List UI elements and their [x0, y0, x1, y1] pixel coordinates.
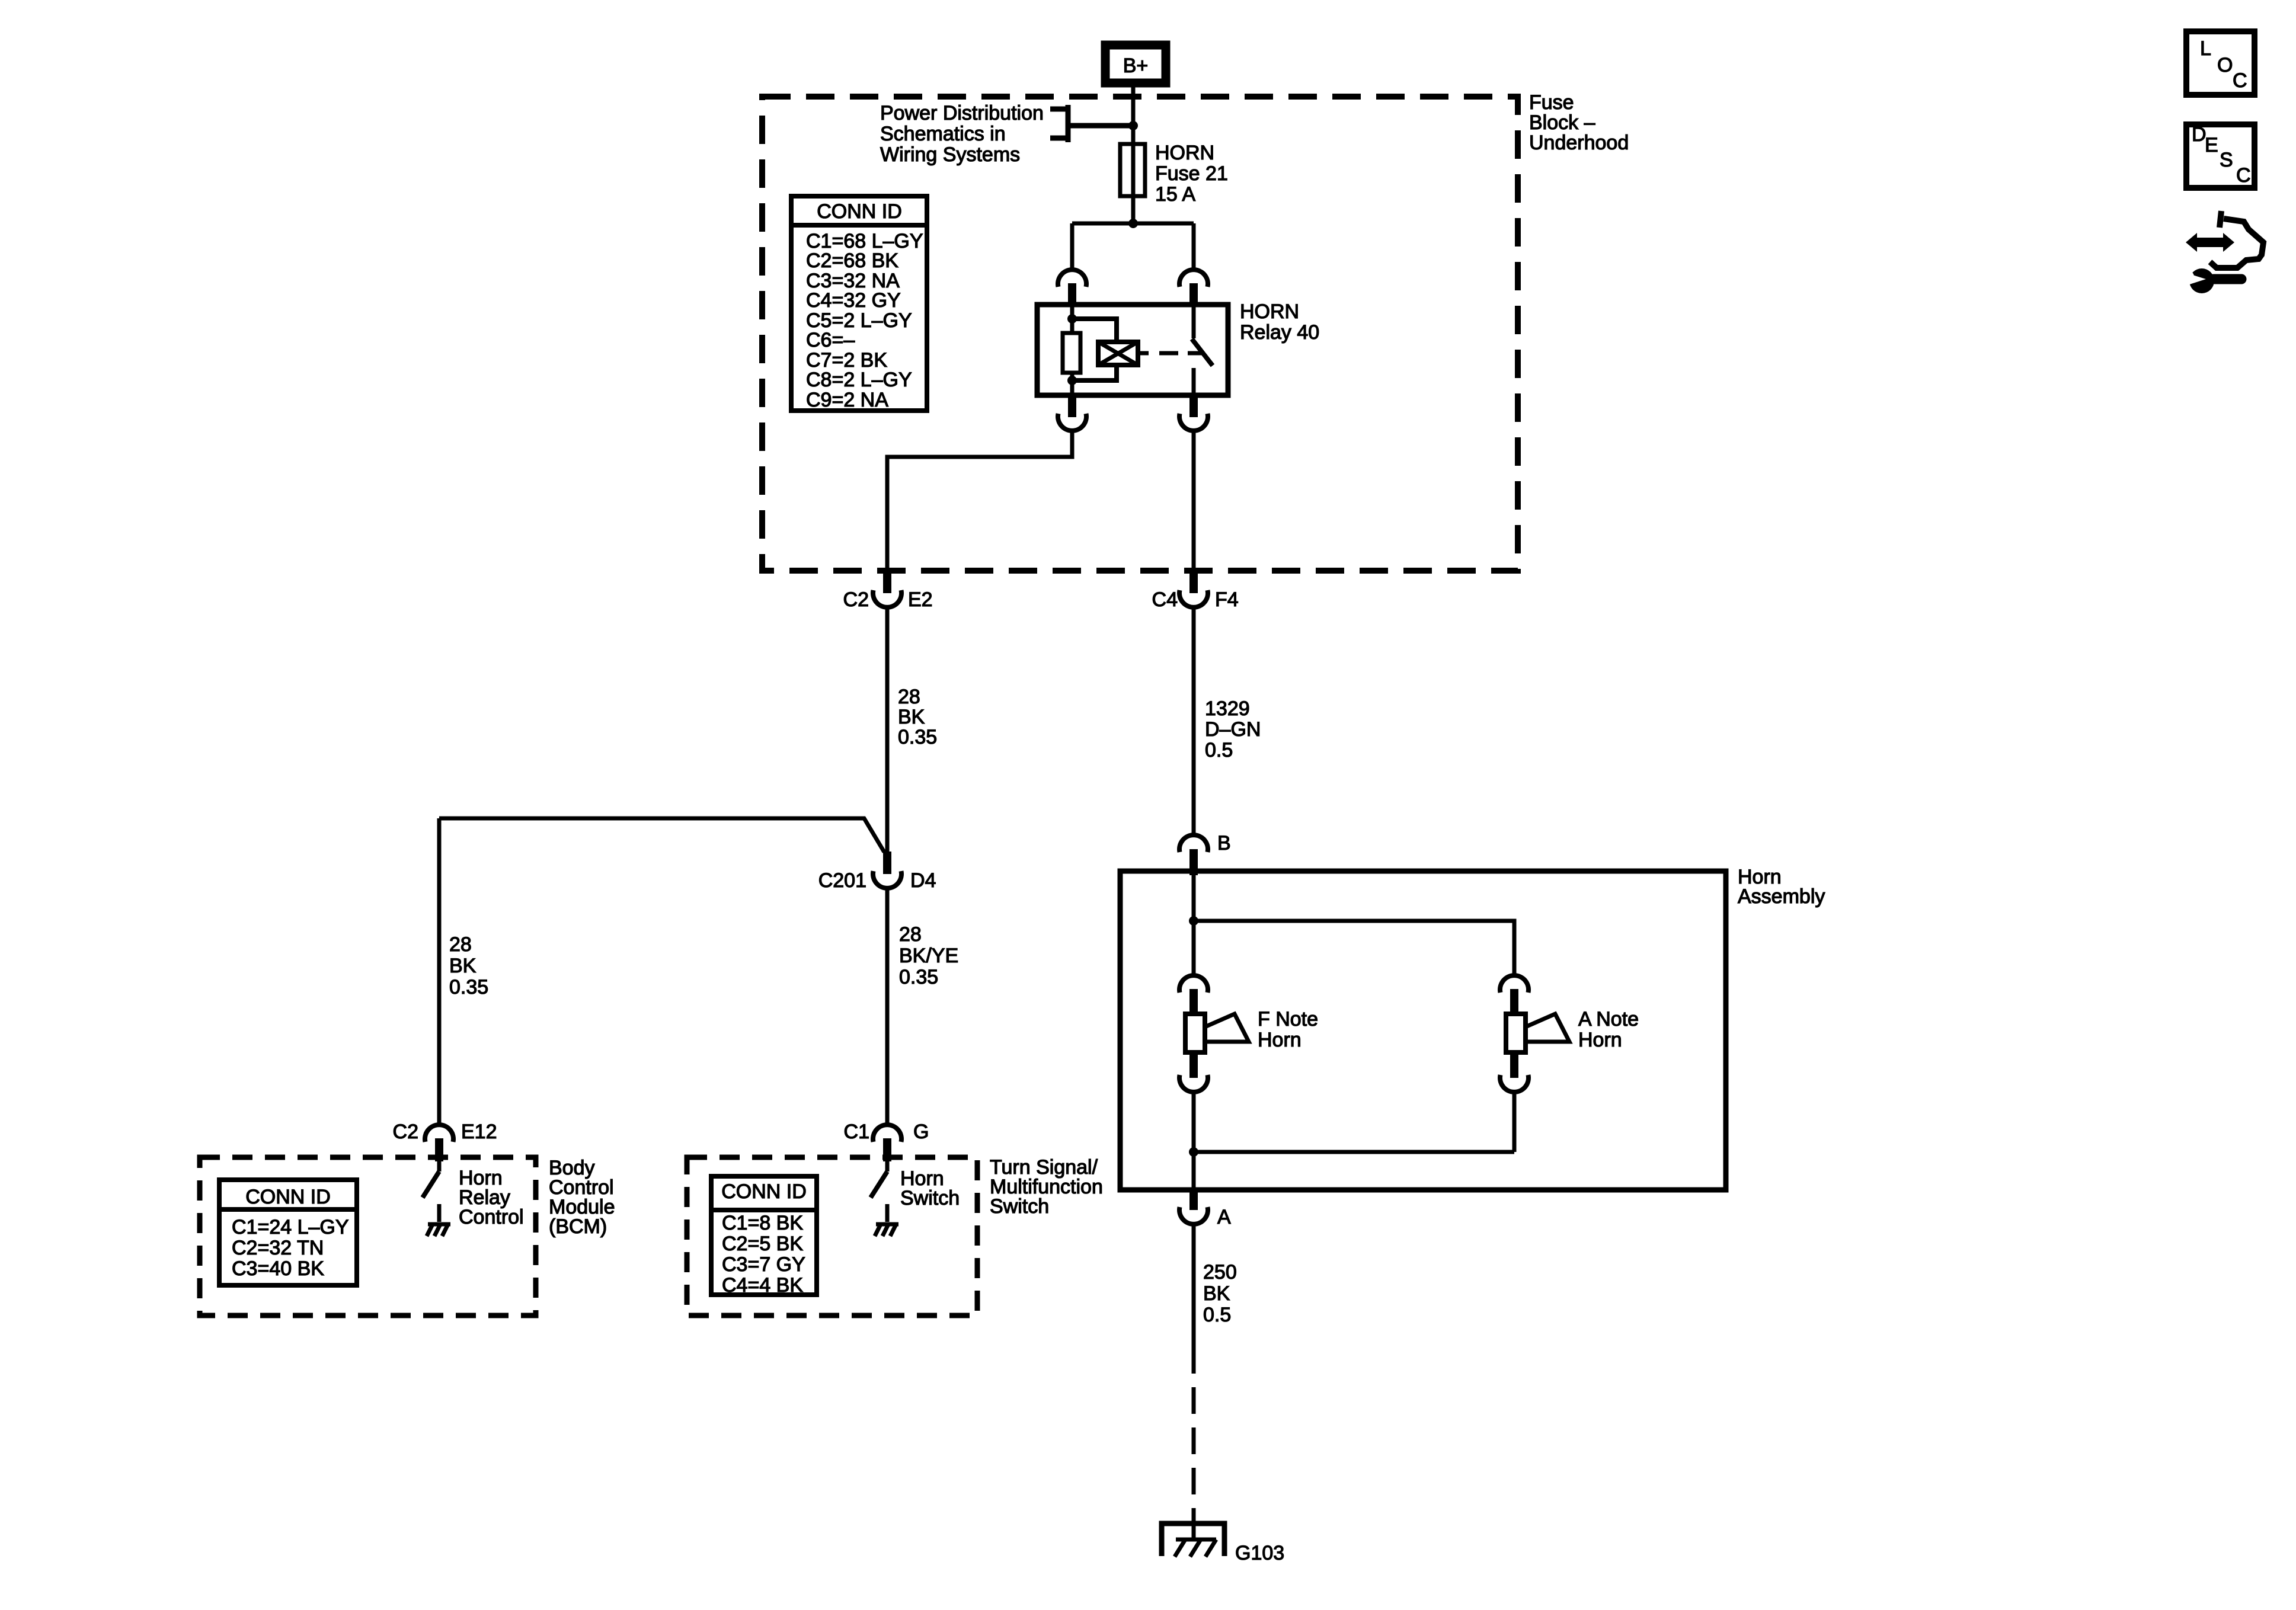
- svg-text:D4: D4: [910, 869, 936, 892]
- svg-text:1329: 1329: [1205, 697, 1250, 720]
- svg-text:F Note: F Note: [1258, 1008, 1318, 1030]
- svg-text:A Note: A Note: [1578, 1008, 1639, 1030]
- svg-text:15 A: 15 A: [1155, 183, 1195, 206]
- svg-text:C1=24 L–GY: C1=24 L–GY: [232, 1216, 349, 1238]
- svg-text:C3=40 BK: C3=40 BK: [232, 1257, 324, 1280]
- svg-text:S: S: [2220, 149, 2233, 171]
- svg-text:0.35: 0.35: [449, 976, 488, 998]
- svg-text:BK: BK: [898, 706, 925, 728]
- svg-text:Power Distribution: Power Distribution: [880, 102, 1044, 124]
- svg-text:C201: C201: [818, 869, 866, 892]
- svg-text:28: 28: [449, 933, 472, 956]
- svg-text:D: D: [2192, 123, 2207, 146]
- svg-text:C1: C1: [844, 1121, 869, 1143]
- svg-text:0.5: 0.5: [1205, 739, 1233, 761]
- svg-text:C2=68 BK: C2=68 BK: [806, 249, 898, 272]
- svg-text:C: C: [2233, 69, 2247, 92]
- svg-text:Relay 40: Relay 40: [1240, 321, 1319, 344]
- svg-text:Underhood: Underhood: [1529, 132, 1629, 154]
- svg-text:C2=32 TN: C2=32 TN: [232, 1237, 324, 1259]
- svg-text:CONN ID: CONN ID: [817, 200, 902, 223]
- svg-text:C2=5 BK: C2=5 BK: [722, 1233, 803, 1255]
- svg-text:Wiring Systems: Wiring Systems: [880, 143, 1020, 166]
- svg-text:C9=2 NA: C9=2 NA: [806, 389, 888, 411]
- svg-text:C8=2 L–GY: C8=2 L–GY: [806, 369, 912, 391]
- svg-text:C4=32 GY: C4=32 GY: [806, 289, 901, 312]
- svg-text:F4: F4: [1215, 588, 1239, 611]
- svg-text:HORN: HORN: [1155, 142, 1214, 164]
- svg-text:E2: E2: [908, 588, 933, 611]
- svg-text:HORN: HORN: [1240, 300, 1299, 323]
- svg-text:L: L: [2200, 37, 2211, 60]
- svg-text:0.35: 0.35: [899, 966, 938, 988]
- svg-text:Block –: Block –: [1529, 111, 1595, 134]
- svg-text:CONN ID: CONN ID: [245, 1186, 331, 1208]
- svg-text:E12: E12: [461, 1121, 497, 1143]
- svg-text:C3=7 GY: C3=7 GY: [722, 1253, 805, 1276]
- svg-text:G103: G103: [1235, 1542, 1284, 1564]
- svg-text:Horn: Horn: [1258, 1029, 1302, 1051]
- svg-text:(BCM): (BCM): [549, 1215, 607, 1238]
- svg-text:Switch: Switch: [900, 1187, 960, 1209]
- svg-text:CONN ID: CONN ID: [721, 1180, 807, 1203]
- svg-text:BK/YE: BK/YE: [899, 945, 958, 967]
- svg-text:E: E: [2205, 134, 2218, 156]
- svg-text:Switch: Switch: [990, 1195, 1049, 1218]
- svg-text:Fuse: Fuse: [1529, 91, 1574, 114]
- svg-text:28: 28: [898, 686, 920, 708]
- svg-text:0.5: 0.5: [1203, 1304, 1231, 1326]
- svg-text:O: O: [2217, 54, 2233, 76]
- svg-text:Horn: Horn: [1578, 1029, 1622, 1051]
- svg-text:B: B: [1217, 832, 1231, 854]
- svg-text:250: 250: [1203, 1261, 1237, 1283]
- svg-text:G: G: [913, 1121, 929, 1143]
- svg-text:Fuse 21: Fuse 21: [1155, 162, 1228, 185]
- svg-text:B+: B+: [1123, 55, 1149, 77]
- svg-text:D–GN: D–GN: [1205, 718, 1261, 741]
- svg-text:C4: C4: [1152, 588, 1178, 611]
- svg-text:C6=–: C6=–: [806, 329, 855, 351]
- svg-text:C2: C2: [843, 588, 869, 611]
- svg-text:BK: BK: [449, 955, 477, 977]
- svg-text:C2: C2: [393, 1121, 418, 1143]
- svg-text:Assembly: Assembly: [1738, 885, 1825, 908]
- svg-text:A: A: [1217, 1206, 1231, 1228]
- svg-text:C1=8 BK: C1=8 BK: [722, 1212, 803, 1234]
- svg-text:C4=4 BK: C4=4 BK: [722, 1274, 803, 1297]
- svg-text:Control: Control: [459, 1206, 524, 1228]
- svg-text:28: 28: [899, 923, 922, 946]
- svg-text:BK: BK: [1203, 1282, 1230, 1305]
- svg-text:C: C: [2236, 164, 2251, 187]
- svg-text:Schematics in: Schematics in: [880, 123, 1006, 145]
- svg-text:0.35: 0.35: [898, 726, 937, 748]
